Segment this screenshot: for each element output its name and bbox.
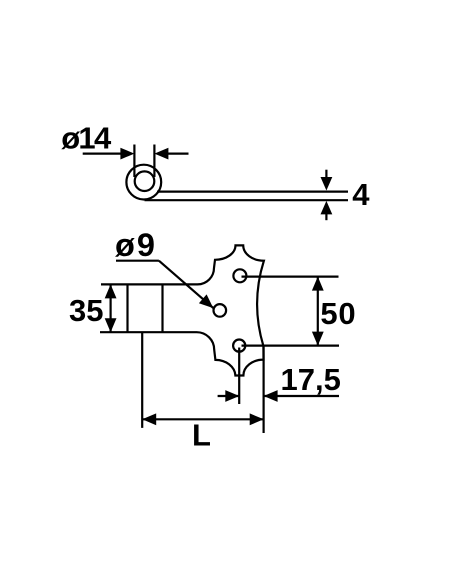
svg-text:4: 4: [352, 177, 370, 212]
svg-text:50: 50: [320, 296, 356, 331]
svg-text:ø14: ø14: [61, 120, 112, 155]
svg-text:35: 35: [69, 293, 103, 328]
svg-text:L: L: [192, 417, 211, 452]
svg-text:17,5: 17,5: [281, 362, 341, 397]
svg-text:ø9: ø9: [115, 227, 157, 263]
